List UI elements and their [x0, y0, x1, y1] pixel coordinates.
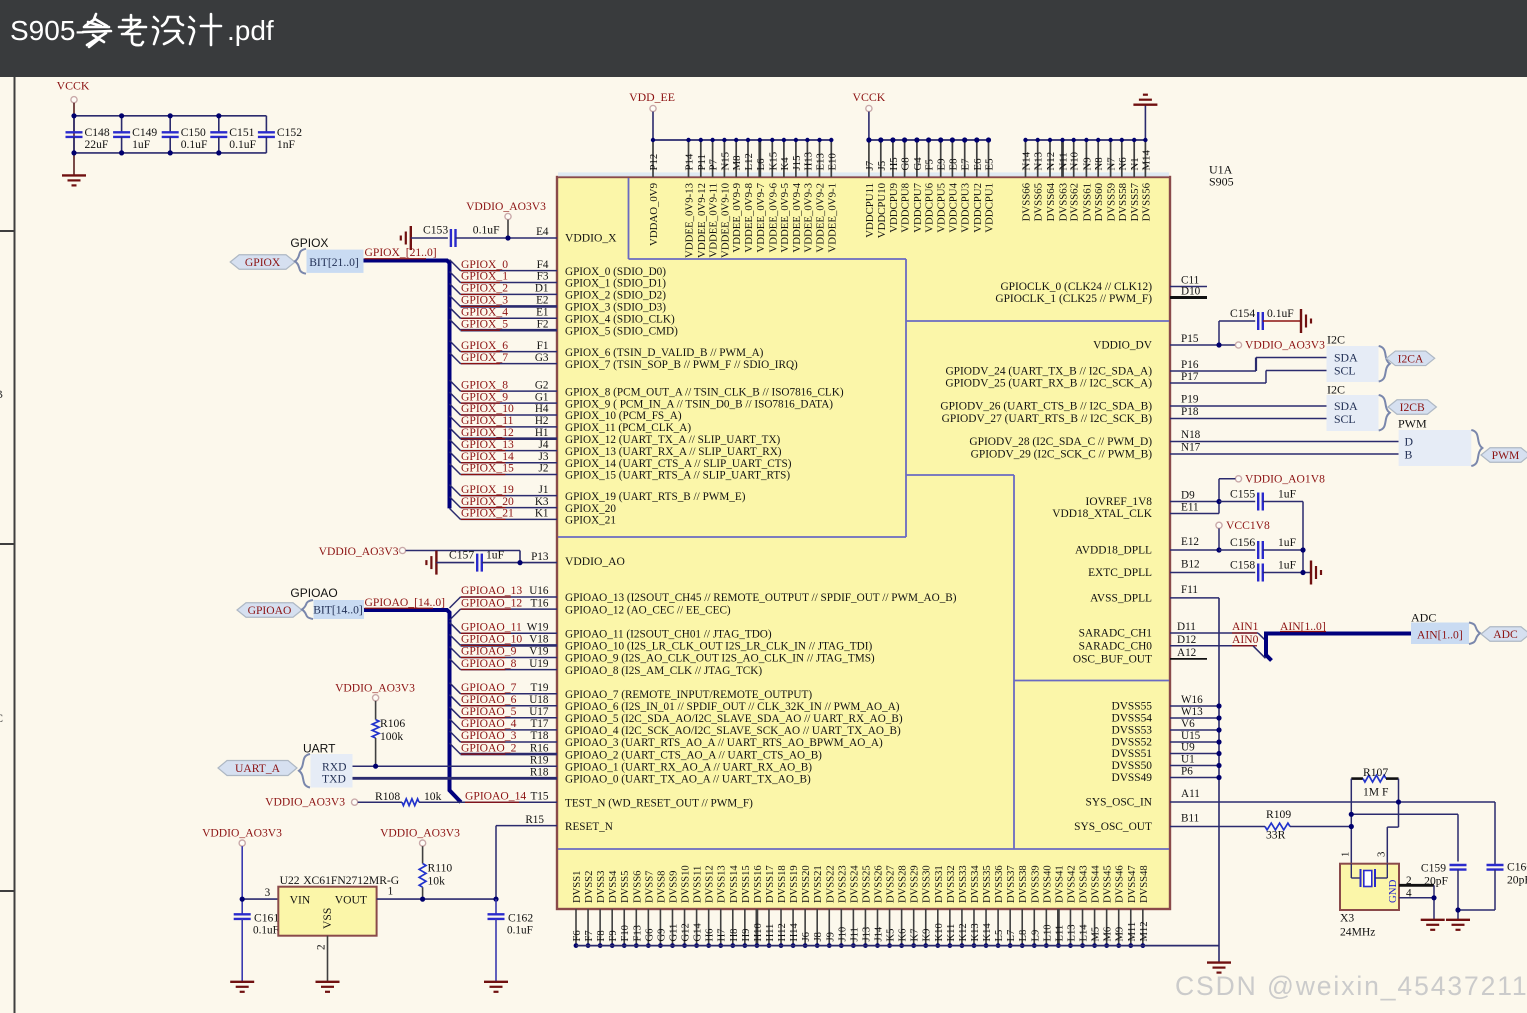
svg-text:U18: U18: [529, 694, 549, 706]
svg-text:GND: GND: [1387, 879, 1399, 903]
svg-text:AIN[1..0]: AIN[1..0]: [1280, 620, 1326, 633]
svg-text:N15: N15: [719, 152, 731, 171]
svg-text:DVSS9: DVSS9: [668, 871, 679, 903]
net label GPIOX_9: [461, 390, 508, 403]
svg-text:E2: E2: [536, 295, 548, 307]
svg-text:SARADC_CH0: SARADC_CH0: [1079, 640, 1153, 652]
wire net GPIOX_14: [450, 452, 558, 463]
svg-text:R18: R18: [530, 767, 549, 779]
svg-text:H14: H14: [789, 923, 800, 942]
svg-text:0.1uF: 0.1uF: [229, 138, 256, 151]
svg-text:VCC1V8: VCC1V8: [1226, 519, 1270, 532]
svg-text:U17: U17: [529, 706, 549, 718]
svg-text:H9: H9: [741, 929, 752, 942]
capacitor C151: [210, 116, 256, 153]
svg-text:TEST_N (WD_RESET_OUT // PWM_F): TEST_N (WD_RESET_OUT // PWM_F): [565, 797, 753, 809]
pin E12: [1170, 536, 1219, 550]
svg-text:VDDCPU5: VDDCPU5: [936, 183, 948, 233]
svg-text:GPIOX_21: GPIOX_21: [461, 507, 514, 520]
svg-text:P11: P11: [696, 154, 708, 170]
svg-text:1: 1: [1339, 852, 1351, 857]
svg-text:V18: V18: [529, 634, 549, 646]
svg-text:K3: K3: [535, 496, 549, 508]
harness brace GPIOAO: [302, 600, 313, 619]
svg-text:VDDCPU1: VDDCPU1: [984, 183, 996, 233]
svg-text:H6: H6: [705, 929, 716, 942]
wire net GPIOX_1: [450, 272, 558, 283]
title CJK glyphs: [83, 14, 221, 47]
svg-text:J5: J5: [876, 161, 888, 171]
net label GPIOAO_14: [465, 789, 526, 802]
wire net GPIOX_4: [450, 307, 558, 318]
svg-text:J15: J15: [791, 156, 803, 171]
svg-text:GPIOAO_2 (UART_CTS_AO_A // UAR: GPIOAO_2 (UART_CTS_AO_A // UART_CTS_AO_B…: [565, 749, 822, 761]
junction A11/R107: [1396, 799, 1401, 804]
svg-text:I2CA: I2CA: [1398, 352, 1424, 365]
X3 label: [1340, 912, 1375, 939]
svg-text:VDDIO_AO3V3: VDDIO_AO3V3: [319, 545, 399, 558]
ground (top DVSS rail): [1133, 103, 1157, 105]
svg-text:J10: J10: [837, 927, 848, 942]
svg-text:OSC_BUF_OUT: OSC_BUF_OUT: [1073, 653, 1152, 665]
wire net GPIOX_6: [450, 341, 558, 352]
svg-text:G3: G3: [535, 352, 549, 364]
resistor R106 100k: [372, 701, 405, 766]
svg-text:GPIODV_27 (UART_RTS_B // I2C_S: GPIODV_27 (UART_RTS_B // I2C_SCK_B): [942, 413, 1153, 425]
svg-text:G1: G1: [535, 391, 549, 403]
svg-text:N17: N17: [1181, 442, 1201, 454]
net label AIN[1..0]: [1280, 620, 1326, 633]
svg-text:R16: R16: [530, 742, 549, 754]
svg-text:DVSS28: DVSS28: [898, 865, 909, 903]
svg-text:DVSS13: DVSS13: [717, 865, 728, 903]
svg-text:IOVREF_1V8: IOVREF_1V8: [1086, 496, 1153, 508]
net label GPIOX_11: [461, 414, 514, 427]
svg-text:DVSS62: DVSS62: [1069, 183, 1081, 221]
svg-text:N8: N8: [1093, 157, 1105, 170]
svg-text:X3: X3: [1340, 912, 1354, 925]
wire AVSS/DVSS column: [1218, 598, 1220, 963]
svg-text:H1: H1: [535, 427, 549, 439]
svg-text:GPIOX_8 (PCM_OUT_A // TSIN_CLK: GPIOX_8 (PCM_OUT_A // TSIN_CLK_B // ISO7…: [565, 386, 844, 398]
pin P15 / VDDIO_DV: [1170, 333, 1235, 345]
wire net GPIOX_9: [450, 392, 558, 403]
svg-text:U15: U15: [1181, 730, 1201, 742]
svg-text:GPIOX_13: GPIOX_13: [461, 438, 514, 451]
svg-text:J13: J13: [861, 927, 872, 942]
svg-text:F6: F6: [572, 930, 583, 941]
svg-text:L11: L11: [1054, 925, 1065, 942]
svg-text:M11: M11: [1127, 922, 1138, 942]
svg-text:W13: W13: [1181, 706, 1203, 718]
svg-text:P16: P16: [1181, 359, 1199, 371]
svg-text:GPIOX_15: GPIOX_15: [461, 462, 514, 475]
svg-text:H8: H8: [729, 929, 740, 942]
wire VDD_EE drop: [652, 112, 654, 140]
pin W13: [1170, 706, 1222, 720]
svg-text:VOUT: VOUT: [335, 894, 367, 907]
svg-text:SDA: SDA: [1334, 350, 1358, 364]
svg-text:DVSS31: DVSS31: [934, 865, 945, 903]
svg-text:B11: B11: [1181, 813, 1199, 825]
svg-text:AVDD18_DPLL: AVDD18_DPLL: [1075, 545, 1152, 557]
svg-text:DVSS50: DVSS50: [1111, 760, 1152, 772]
wire DVSS rail to ground: [1144, 105, 1146, 140]
svg-text:VDDEE_0V9-5: VDDEE_0V9-5: [779, 183, 791, 253]
wire R107 left / X3 pin1: [1350, 779, 1352, 864]
wire net GPIOAO_3: [450, 731, 558, 742]
port I2CA: [1386, 351, 1434, 366]
svg-text:C161: C161: [254, 912, 279, 925]
svg-text:N7: N7: [1106, 157, 1118, 171]
svg-text:DVSS15: DVSS15: [741, 865, 752, 903]
svg-text:N6: N6: [1117, 157, 1129, 171]
svg-text:GPIOAO_4 (I2C_SCK_AO/I2C_SLAVE: GPIOAO_4 (I2C_SCK_AO/I2C_SLAVE_SCK_AO //…: [565, 725, 901, 737]
junction E12: [1216, 547, 1221, 552]
capacitor C160 20pF: [1458, 802, 1527, 910]
net label GPIOX_6: [461, 339, 508, 352]
harness brace I2CA: [1379, 346, 1390, 382]
pin P19 wire to I2C SDA: [1170, 394, 1327, 406]
capacitor C156 1uF: [1219, 536, 1303, 559]
svg-text:VDDEE_0V9-10: VDDEE_0V9-10: [719, 183, 731, 258]
U1A top DVSS pins N14..M14: [1021, 138, 1153, 222]
svg-text:GPIOX_5 (SDIO_CMD): GPIOX_5 (SDIO_CMD): [565, 325, 678, 337]
wire VDDIO_AO3V3 to P13: [406, 551, 520, 563]
bus entry box BIT[14..0]: [314, 600, 365, 619]
svg-text:G14: G14: [693, 923, 704, 942]
svg-text:G4: G4: [912, 157, 924, 171]
svg-text:UART: UART: [303, 742, 336, 756]
svg-text:GPIOX_1 (SDIO_D1): GPIOX_1 (SDIO_D1): [565, 278, 666, 290]
net label GPIOAO_2: [461, 741, 517, 754]
capacitor C154 0.1uF: [1219, 307, 1301, 345]
svg-text:DVSS27: DVSS27: [886, 865, 897, 903]
svg-text:DVSS40: DVSS40: [1042, 865, 1053, 903]
svg-text:1M F: 1M F: [1363, 786, 1389, 799]
svg-text:DVSS18: DVSS18: [777, 865, 788, 903]
junction R106/RXD: [373, 764, 378, 769]
wire net GPIOX_5: [450, 319, 558, 330]
net label GPIOX_21: [461, 507, 514, 520]
svg-text:H4: H4: [535, 403, 549, 415]
resistor R110 10k: [419, 846, 452, 899]
port GPIOAO: [237, 603, 302, 618]
svg-text:DVSS59: DVSS59: [1106, 183, 1118, 221]
svg-text:GPIOAO_7 (REMOTE_INPUT/REMOTE_: GPIOAO_7 (REMOTE_INPUT/REMOTE_OUTPUT): [565, 689, 812, 701]
svg-text:GPIOAO_6: GPIOAO_6: [461, 693, 517, 706]
svg-text:ADC: ADC: [1411, 611, 1436, 625]
svg-text:3: 3: [1375, 852, 1387, 857]
svg-text:GPIOX_12 (UART_TX_A // SLIP_UA: GPIOX_12 (UART_TX_A // SLIP_UART_TX): [565, 434, 781, 446]
svg-text:N13: N13: [1033, 152, 1045, 171]
U1A right-side pin names: [940, 281, 1152, 833]
wire net GPIOAO_7: [450, 683, 558, 694]
wire C155/C156 drain: [1302, 502, 1304, 573]
svg-text:L9: L9: [1030, 930, 1041, 942]
svg-text:VDDIO_AO3V3: VDDIO_AO3V3: [202, 827, 282, 840]
svg-text:H13: H13: [802, 152, 814, 171]
svg-text:DVSS56: DVSS56: [1140, 182, 1152, 221]
svg-text:GPIODV_25 (UART_RX_B // I2C_SC: GPIODV_25 (UART_RX_B // I2C_SCK_A): [945, 378, 1152, 390]
svg-text:100k: 100k: [380, 730, 403, 743]
svg-text:PWM: PWM: [1492, 449, 1520, 462]
svg-text:N12: N12: [1045, 152, 1057, 171]
net label GPIOAO_9: [461, 645, 517, 658]
net label GPIOAO_3: [461, 729, 517, 742]
power port VDDIO_AO3V3 (P13): [319, 545, 406, 558]
junction D9: [1216, 499, 1221, 504]
pin F11: [1170, 584, 1219, 598]
svg-text:I2CB: I2CB: [1400, 401, 1425, 414]
svg-text:GPIOX_19 (UART_RTS_B // PWM_E): GPIOX_19 (UART_RTS_B // PWM_E): [565, 491, 746, 503]
svg-text:M8: M8: [731, 156, 743, 171]
svg-text:SDA: SDA: [1334, 399, 1358, 413]
svg-text:GPIOX_10 (PCM_FS_A): GPIOX_10 (PCM_FS_A): [565, 410, 682, 422]
pin U9: [1170, 742, 1222, 756]
svg-text:DVSS3: DVSS3: [596, 871, 607, 903]
svg-text:B: B: [0, 387, 3, 401]
svg-text:M9: M9: [1115, 927, 1126, 942]
svg-text:GPIOX: GPIOX: [245, 256, 281, 269]
harness PWM box: [1399, 430, 1472, 466]
svg-text:GPIOAO_2: GPIOAO_2: [461, 741, 517, 754]
svg-text:DVSS20: DVSS20: [801, 865, 812, 903]
ground (DVSS column): [1207, 961, 1231, 963]
svg-text:33R: 33R: [1266, 829, 1286, 842]
svg-text:VDDIO_AO3V3: VDDIO_AO3V3: [265, 796, 345, 809]
svg-text:G9: G9: [656, 929, 667, 942]
svg-text:GPIOX_15 (UART_RTS_A // SLIP_U: GPIOX_15 (UART_RTS_A // SLIP_UART_RTS): [565, 470, 790, 482]
svg-text:T19: T19: [530, 682, 548, 694]
wire X3 gnd: [1433, 885, 1435, 920]
svg-text:VDDEE_0V9-9: VDDEE_0V9-9: [731, 183, 743, 253]
net label GPIOX_14: [461, 450, 514, 463]
svg-text:P15: P15: [1181, 333, 1199, 345]
net label GPIOX_15: [461, 462, 514, 475]
svg-text:DVSS14: DVSS14: [729, 865, 740, 903]
power port VDDIO_AO3V3 (E4): [466, 200, 546, 238]
net label GPIOAO_8: [461, 657, 517, 670]
svg-text:N11: N11: [1058, 152, 1070, 170]
svg-text:GPIODV_26 (UART_CTS_B // I2C_S: GPIODV_26 (UART_CTS_B // I2C_SDA_B): [940, 401, 1152, 413]
svg-text:GPIOX_7 (TSIN_SOP_B // PWM_F /: GPIOX_7 (TSIN_SOP_B // PWM_F // SDIO_IRQ…: [565, 359, 798, 371]
capacitor C159 20pF: [1421, 862, 1467, 920]
svg-text:PWM: PWM: [1398, 417, 1427, 431]
svg-text:DVSS66: DVSS66: [1021, 182, 1033, 221]
svg-text:GPIOAO_10: GPIOAO_10: [461, 633, 522, 646]
svg-text:DVSS57: DVSS57: [1129, 182, 1141, 221]
svg-text:K15: K15: [767, 152, 779, 171]
svg-text:VDDAO_0V9: VDDAO_0V9: [648, 183, 660, 246]
svg-text:C156: C156: [1230, 536, 1255, 549]
svg-text:L14: L14: [1079, 924, 1090, 942]
pin B12: [1170, 559, 1255, 573]
power port VDDIO_AO3V3 (P15): [1235, 339, 1325, 352]
svg-text:DVSS54: DVSS54: [1111, 713, 1152, 725]
regulator U22 XC61FN2712MR-G: [278, 887, 376, 936]
svg-text:GPIOX_9 ( PCM_IN_A // TSIN_D0_: GPIOX_9 ( PCM_IN_A // TSIN_D0_B // ISO78…: [565, 398, 833, 410]
svg-text:DVSS26: DVSS26: [874, 865, 885, 903]
svg-text:B: B: [1405, 447, 1413, 461]
wire VCCK drop: [868, 112, 870, 140]
net label GPIOAO_4: [461, 717, 517, 730]
svg-text:U19: U19: [529, 658, 549, 670]
wire net GPIOX_2: [450, 283, 558, 294]
svg-text:R108: R108: [375, 790, 400, 803]
pin D11 (SARADC_CH1): [1170, 621, 1258, 633]
power port VDDIO_AO3V3 (C161): [202, 827, 282, 847]
svg-text:GPIOAO_0 (UART_TX_AO_A // UART: GPIOAO_0 (UART_TX_AO_A // UART_TX_AO_B): [565, 774, 811, 786]
wire cap bank top rail: [73, 115, 266, 117]
svg-text:C: C: [0, 711, 3, 725]
pin A12 (OSC_BUF_OUT): [1170, 647, 1207, 659]
svg-text:M12: M12: [1139, 921, 1150, 941]
svg-text:A11: A11: [1181, 788, 1200, 800]
ground (cap bank): [62, 174, 86, 176]
svg-text:DVSS16: DVSS16: [753, 865, 764, 903]
svg-text:G8: G8: [900, 157, 912, 170]
svg-text:F1: F1: [537, 340, 549, 352]
capacitor C153 0.1uF: [411, 223, 557, 247]
wire VCCK vertical: [73, 103, 75, 176]
svg-text:DVSS23: DVSS23: [837, 865, 848, 903]
svg-text:VDDCPU3: VDDCPU3: [960, 183, 972, 233]
wire net GPIOX_8: [450, 380, 558, 391]
zone ticks: [0, 230, 15, 232]
harness I2C B box: [1327, 395, 1379, 431]
harness box RXD/TXD: [311, 754, 353, 788]
ground (C154): [1300, 309, 1302, 333]
svg-text:GPIOAO_9 (I2S_AO_CLK_OUT I2S_A: GPIOAO_9 (I2S_AO_CLK_OUT I2S_AO_CLK_IN /…: [565, 653, 875, 665]
svg-text:AIN1: AIN1: [1232, 620, 1259, 633]
svg-text:L7: L7: [1006, 930, 1017, 942]
svg-text:GPIOAO_14: GPIOAO_14: [465, 789, 526, 802]
crystal X3 24MHz: [1340, 864, 1399, 910]
net label GPIOX_5: [461, 317, 508, 330]
svg-text:0.1uF: 0.1uF: [473, 223, 500, 236]
svg-text:3: 3: [265, 887, 271, 899]
svg-text:DVSS64: DVSS64: [1045, 182, 1057, 221]
svg-text:E13: E13: [815, 153, 827, 170]
svg-text:F3: F3: [537, 271, 549, 283]
svg-text:C158: C158: [1230, 559, 1255, 572]
capacitor C148: [66, 116, 110, 153]
net label GPIOAO_12: [461, 596, 522, 609]
svg-text:DVSS1: DVSS1: [572, 871, 583, 903]
svg-text:L10: L10: [1042, 924, 1053, 941]
pin P17 wire to I2C SCL: [1170, 371, 1327, 384]
svg-text:DVSS43: DVSS43: [1079, 865, 1090, 903]
svg-text:GPIOX: GPIOX: [290, 236, 328, 250]
svg-text:GPIOAO_10 (I2S_LR_CLK_OUT I2S_: GPIOAO_10 (I2S_LR_CLK_OUT I2S_LR_CLK_IN …: [565, 641, 872, 653]
svg-text:L8: L8: [1018, 930, 1029, 942]
net label GPIOX_4: [461, 306, 508, 319]
svg-text:VDDCPU11: VDDCPU11: [864, 183, 876, 238]
wire TXD to R18: [353, 777, 558, 780]
wire bottom DVSS bus to ground: [576, 945, 1219, 947]
svg-text:H11: H11: [765, 924, 776, 942]
svg-text:GPIOX_3 (SDIO_D3): GPIOX_3 (SDIO_D3): [565, 302, 666, 314]
pin P6: [1170, 766, 1222, 780]
svg-text:GPIOX_7: GPIOX_7: [461, 351, 508, 364]
net label GPIOX_8: [461, 378, 508, 391]
svg-text:AIN0: AIN0: [1232, 633, 1259, 646]
svg-text:I2C: I2C: [1327, 383, 1345, 397]
bus entry box BIT[21..0]: [307, 250, 364, 273]
svg-text:DVSS10: DVSS10: [681, 865, 692, 903]
svg-text:GPIOX_2 (SDIO_D2): GPIOX_2 (SDIO_D2): [565, 290, 666, 302]
svg-text:H5: H5: [888, 157, 900, 170]
svg-text:DVSS22: DVSS22: [825, 865, 836, 903]
pin D10 (GPIOCLK_1): [1170, 286, 1207, 298]
net label GPIOX_7: [461, 351, 508, 364]
svg-text:GPIOX_5: GPIOX_5: [461, 317, 508, 330]
svg-text:VDDCPU4: VDDCPU4: [947, 182, 959, 232]
svg-text:E10: E10: [826, 153, 838, 170]
svg-text:VCCK: VCCK: [57, 79, 90, 93]
svg-text:G12: G12: [681, 923, 692, 941]
svg-text:R109: R109: [1266, 808, 1291, 821]
svg-text:K5: K5: [886, 929, 897, 942]
svg-text:H12: H12: [777, 923, 788, 941]
pin U15: [1170, 730, 1222, 744]
svg-text:W16: W16: [1181, 694, 1203, 706]
junction C162: [493, 897, 498, 902]
wire net GPIOAO_2: [450, 743, 558, 754]
svg-text:1uF: 1uF: [486, 549, 505, 562]
net label GPIOX_0: [461, 258, 508, 271]
svg-text:VDD18_XTAL_CLK: VDD18_XTAL_CLK: [1052, 508, 1152, 520]
svg-text:DVSS25: DVSS25: [861, 865, 872, 903]
resistor R107 1M: [1351, 766, 1398, 799]
svg-text:SCL: SCL: [1334, 363, 1356, 377]
junction C160 drain: [1455, 907, 1460, 912]
svg-text:CSDN @weixin_45437211: CSDN @weixin_45437211: [1175, 971, 1527, 1001]
svg-text:E11: E11: [1181, 502, 1199, 514]
svg-text:K13: K13: [970, 923, 981, 941]
capacitor C162 0.1uF: [488, 899, 534, 982]
svg-text:GPIOAO_5: GPIOAO_5: [461, 705, 517, 718]
svg-text:GPIOAO_9: GPIOAO_9: [461, 645, 517, 658]
svg-text:DVSS12: DVSS12: [705, 865, 716, 903]
svg-text:VDDCPU8: VDDCPU8: [900, 183, 912, 233]
svg-text:M5: M5: [1091, 927, 1102, 942]
svg-text:DVSS30: DVSS30: [922, 865, 933, 903]
capacitor C150: [162, 116, 208, 153]
svg-text:F4: F4: [537, 259, 549, 271]
bus GPIOX_[21..0]: [364, 261, 450, 509]
bus AIN[1..0]: [1258, 633, 1265, 640]
harness brace I2CB: [1379, 395, 1390, 431]
svg-text:DVSS11: DVSS11: [693, 866, 704, 903]
svg-text:DVSS35: DVSS35: [982, 865, 993, 903]
svg-text:VDDIO_DV: VDDIO_DV: [1093, 340, 1153, 352]
svg-text:T16: T16: [530, 597, 548, 609]
svg-text:GPIODV_24 (UART_TX_B // I2C_SD: GPIODV_24 (UART_TX_B // I2C_SDA_A): [945, 366, 1152, 378]
svg-text:V6: V6: [1181, 718, 1195, 730]
net label AIN0: [1232, 633, 1259, 646]
svg-text:W19: W19: [527, 622, 549, 634]
svg-text:RXD: RXD: [322, 760, 346, 773]
svg-text:DVSS7: DVSS7: [644, 871, 655, 903]
svg-text:DVSS8: DVSS8: [656, 871, 667, 903]
svg-text:T18: T18: [530, 730, 548, 742]
wire net GPIOAO_4: [450, 719, 558, 730]
svg-text:DVSS49: DVSS49: [1111, 772, 1152, 784]
wire D9/E11 to VDDIO_AO1V8: [1219, 479, 1235, 514]
svg-text:DVSS37: DVSS37: [1006, 865, 1017, 903]
